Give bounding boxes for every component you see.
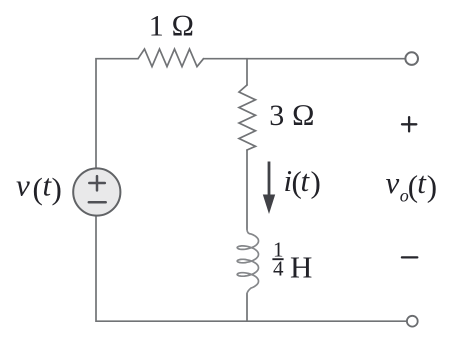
svg-text:): ): [427, 169, 437, 204]
svg-text:v: v: [386, 165, 400, 200]
svg-text:): ): [52, 171, 62, 206]
svg-text:t: t: [417, 165, 427, 200]
svg-text:(: (: [33, 171, 43, 206]
svg-text:v: v: [16, 168, 30, 203]
svg-text:1 Ω: 1 Ω: [149, 9, 195, 42]
svg-text:H: H: [290, 250, 312, 285]
svg-text:3 Ω: 3 Ω: [269, 99, 315, 132]
svg-text:): ): [311, 164, 321, 199]
svg-text:t: t: [301, 163, 311, 198]
svg-text:4: 4: [273, 256, 284, 280]
